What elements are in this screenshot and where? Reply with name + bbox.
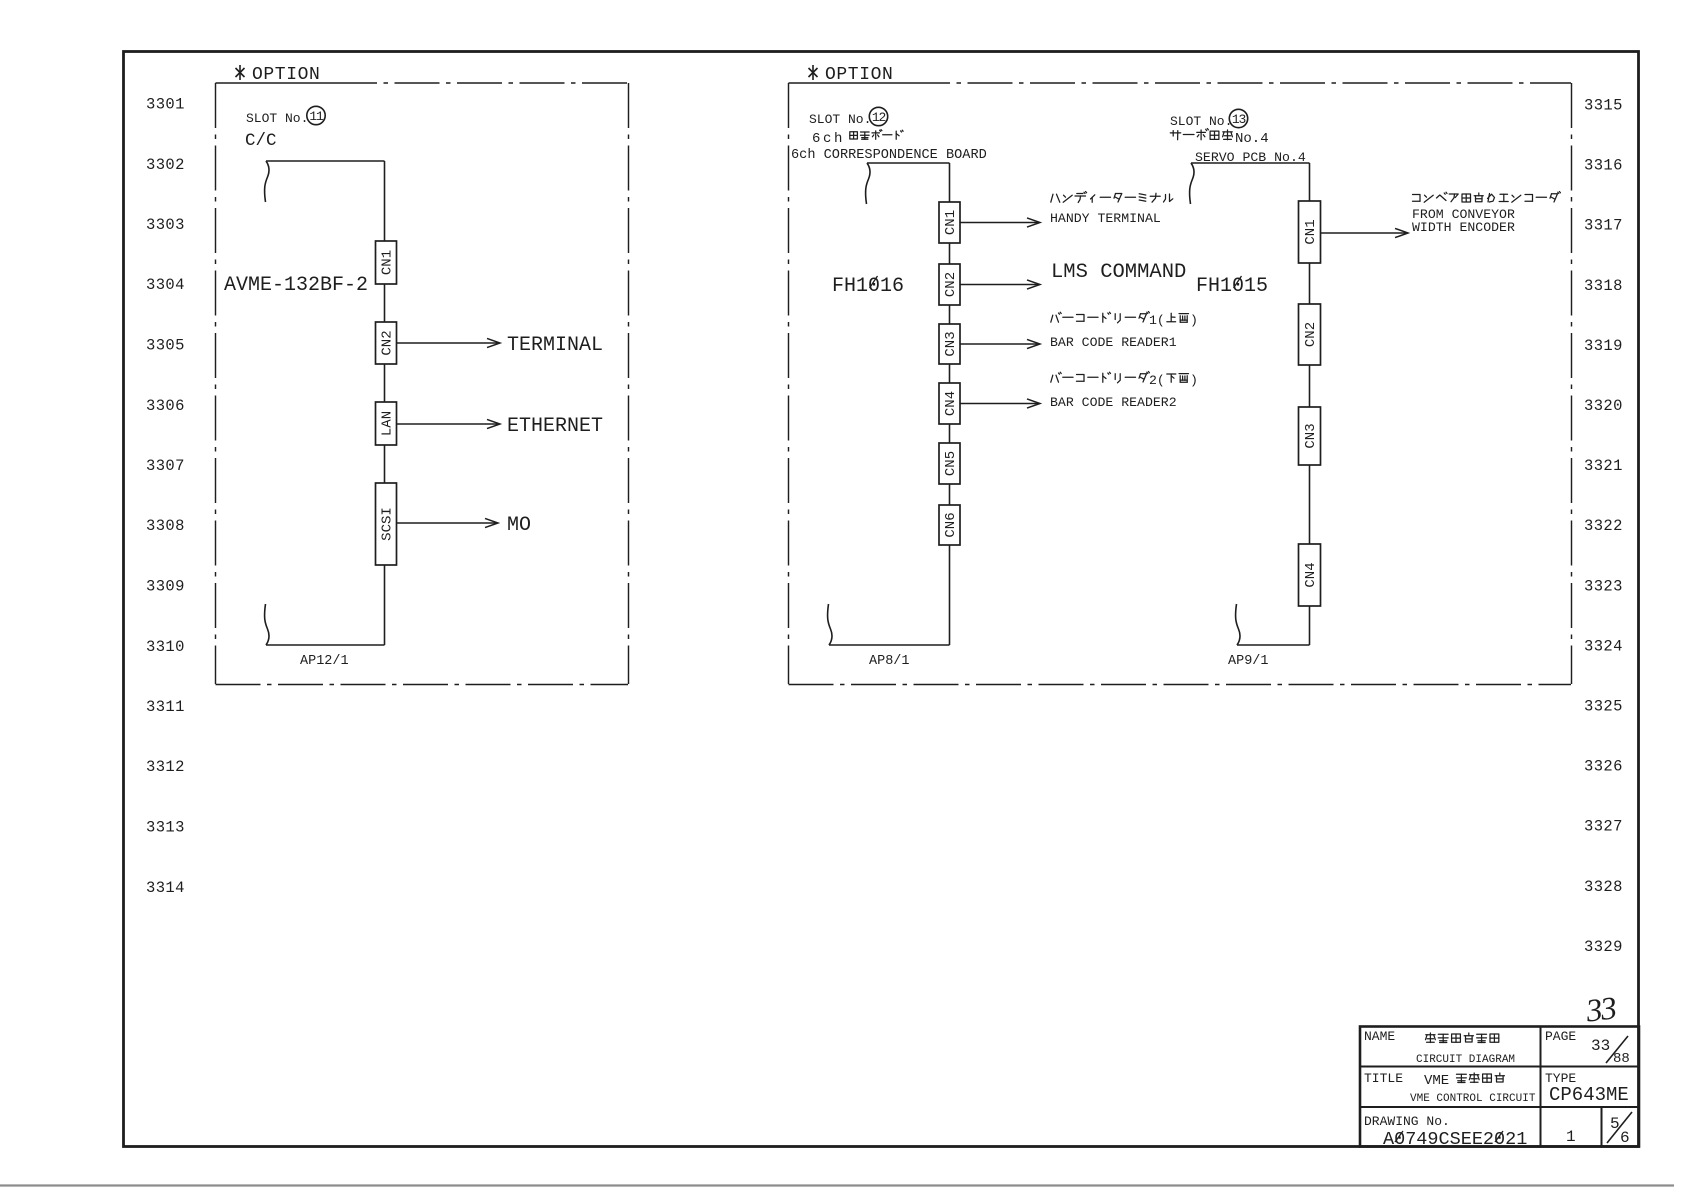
svg-text:CN2: CN2: [943, 272, 959, 297]
svg-text:OPTION: OPTION: [252, 65, 320, 85]
svg-text:3321: 3321: [1584, 457, 1623, 475]
option marker 1 (asterisk + OPTION): [236, 65, 245, 80]
svg-text:AVME-132BF-2: AVME-132BF-2: [224, 274, 368, 297]
svg-text:C/C: C/C: [245, 131, 277, 151]
wire: top edge horizontal (slot 13): [1191, 162, 1310, 164]
svg-text:3323: 3323: [1584, 577, 1623, 595]
svg-text:LMS COMMAND: LMS COMMAND: [1051, 261, 1186, 284]
left margin line numbers 3301-3314: [146, 96, 185, 897]
svg-text:BAR CODE READER2: BAR CODE READER2: [1050, 395, 1177, 410]
svg-text:CN3: CN3: [943, 331, 959, 356]
svg-text:3306: 3306: [146, 397, 185, 415]
svg-text:1: 1: [1566, 1128, 1576, 1146]
arrow CN1 to HANDY TERMINAL: [960, 222, 1038, 224]
svg-text:DRAWING No.: DRAWING No.: [1364, 1114, 1450, 1129]
svg-text:HANDY TERMINAL: HANDY TERMINAL: [1050, 211, 1161, 226]
svg-text:CN2: CN2: [380, 330, 396, 355]
svg-text:): ): [1190, 313, 1198, 328]
name denki kairo senzu (JP): [1426, 1034, 1435, 1036]
board edge squiggle bottom (slot 13): [1236, 604, 1240, 645]
svg-text:3328: 3328: [1584, 878, 1623, 896]
svg-text:FH1015: FH1015: [1196, 275, 1268, 298]
arrow CN3 to BAR CODE READER1: [960, 343, 1038, 345]
right margin line numbers 3315-3329: [1584, 97, 1623, 956]
svg-text:CN4: CN4: [1303, 562, 1319, 587]
svg-text:3315: 3315: [1584, 97, 1623, 115]
svg-text:3317: 3317: [1584, 217, 1623, 235]
connector CN1 (slot 13): [1299, 201, 1321, 263]
arrow CN4 to BAR CODE READER2: [960, 403, 1038, 405]
svg-text:3325: 3325: [1584, 698, 1623, 716]
svg-text:11: 11: [309, 109, 324, 124]
circled 11: [307, 106, 325, 124]
arrow CN2 to LMS COMMAND: [960, 284, 1038, 286]
svg-text:CP643ME: CP643ME: [1549, 1084, 1629, 1106]
svg-text:PAGE: PAGE: [1545, 1029, 1576, 1044]
svg-text:CN1: CN1: [1303, 219, 1319, 244]
wire: bottom edge horizontal (slot 11): [266, 644, 385, 646]
label conveyor width encoder (JP): [1413, 195, 1421, 202]
svg-text:1(: 1(: [1149, 313, 1165, 328]
connector CN3 (slot 12): [939, 324, 960, 364]
svg-text:CN5: CN5: [943, 451, 959, 476]
option box 2 border: [789, 83, 1572, 685]
svg-text:SLOT No.: SLOT No.: [809, 112, 871, 127]
svg-text:3324: 3324: [1584, 637, 1623, 655]
svg-text:CN2: CN2: [1303, 322, 1319, 347]
svg-text:3305: 3305: [146, 337, 185, 355]
svg-text:3303: 3303: [146, 216, 185, 234]
svg-text:BAR CODE READER1: BAR CODE READER1: [1050, 335, 1177, 350]
wire: bottom edge horizontal (slot 12): [829, 644, 950, 646]
svg-text:3329: 3329: [1584, 938, 1623, 956]
svg-text:2(: 2(: [1149, 373, 1165, 388]
svg-text:3326: 3326: [1584, 758, 1623, 776]
svg-text:AP9/1: AP9/1: [1228, 654, 1269, 669]
wire: board bus vertical (slot 11): [384, 161, 386, 645]
svg-text:12: 12: [872, 110, 886, 125]
svg-text:3301: 3301: [146, 96, 185, 114]
svg-text:3320: 3320: [1584, 397, 1623, 415]
connector CN2 (slot 13): [1299, 304, 1321, 365]
arrow CN1 to width encoder: [1321, 232, 1407, 234]
svg-text:CN4: CN4: [943, 391, 959, 416]
svg-text:3318: 3318: [1584, 277, 1623, 295]
svg-text:CIRCUIT DIAGRAM: CIRCUIT DIAGRAM: [1416, 1054, 1515, 1066]
svg-text:3312: 3312: [146, 758, 185, 776]
svg-text:SLOT No.: SLOT No.: [246, 111, 308, 126]
connector CN5 (slot 12): [939, 443, 960, 484]
svg-text:3314: 3314: [146, 879, 185, 897]
arrow LAN to ETHERNET: [397, 423, 499, 425]
svg-text:6: 6: [1620, 1129, 1630, 1147]
wire: top edge horizontal (slot 11): [266, 160, 385, 162]
svg-text:No.4: No.4: [1235, 131, 1269, 147]
board edge squiggle top (slot 11): [265, 161, 269, 202]
svg-text:TITLE: TITLE: [1364, 1071, 1403, 1086]
connector CN3 (slot 13): [1299, 407, 1321, 465]
svg-text:3319: 3319: [1584, 337, 1623, 355]
svg-text:WIDTH ENCODER: WIDTH ENCODER: [1412, 220, 1515, 235]
svg-text:FH1016: FH1016: [832, 275, 904, 298]
svg-text:MO: MO: [507, 514, 531, 537]
connector SCSI: [376, 483, 397, 565]
svg-text:33: 33: [1591, 1037, 1610, 1055]
svg-text:CN3: CN3: [1303, 423, 1319, 448]
wire: top edge horizontal (slot 12): [867, 162, 950, 164]
label bar code reader 1 (JP): [1051, 315, 1053, 322]
connector CN1 (slot 12): [939, 202, 960, 243]
connector CN1 (slot 11): [376, 241, 397, 284]
label handy terminal (JP): [1051, 194, 1053, 202]
circled 12: [869, 107, 887, 125]
wire: bottom edge horizontal (slot 13): [1237, 644, 1310, 646]
arrow SCSI to MO: [397, 522, 497, 524]
svg-text:SCSI: SCSI: [380, 507, 396, 541]
connector CN2 (slot 11): [376, 322, 397, 364]
label bar code reader 2 (JP): [1051, 375, 1053, 382]
svg-text:3311: 3311: [146, 698, 185, 716]
title block field labels: [1364, 1029, 1576, 1129]
svg-text:13: 13: [1232, 112, 1246, 127]
svg-text:3313: 3313: [146, 819, 185, 837]
board name servo kiban No.4 (JP): [1170, 132, 1180, 134]
svg-text:CN1: CN1: [943, 210, 959, 235]
connector CN2 (slot 12): [939, 264, 960, 305]
svg-text:3322: 3322: [1584, 517, 1623, 535]
svg-text:CN1: CN1: [380, 250, 396, 275]
svg-text:3327: 3327: [1584, 818, 1623, 836]
svg-text:3302: 3302: [146, 156, 185, 174]
svg-text:ETHERNET: ETHERNET: [507, 415, 603, 438]
svg-text:3307: 3307: [146, 457, 185, 475]
board edge squiggle top (slot 12): [866, 163, 870, 204]
svg-text:AP12/1: AP12/1: [300, 654, 349, 669]
svg-text:VME: VME: [1424, 1073, 1449, 1089]
connector LAN: [376, 402, 397, 445]
svg-text:SLOT No.: SLOT No.: [1170, 114, 1232, 129]
board edge squiggle top (slot 13): [1190, 163, 1194, 204]
wire: board bus vertical (slot 13): [1309, 163, 1311, 645]
svg-text:NAME: NAME: [1364, 1029, 1395, 1044]
option box 1 border: [216, 83, 629, 685]
svg-text:LAN: LAN: [380, 411, 396, 436]
circled 13: [1229, 109, 1247, 127]
connector CN6 (slot 12): [939, 505, 960, 545]
connector CN4 (slot 13): [1299, 544, 1321, 606]
svg-text:3316: 3316: [1584, 157, 1623, 175]
svg-text:): ): [1190, 373, 1198, 388]
title block grid: [1360, 1027, 1639, 1147]
wire: board bus vertical (slot 12): [949, 163, 951, 645]
svg-text:OPTION: OPTION: [825, 65, 893, 85]
svg-text:AP8/1: AP8/1: [869, 654, 910, 669]
arrow CN2 to TERMINAL: [397, 342, 499, 344]
svg-text:CN6: CN6: [943, 512, 959, 537]
scan edge line: [0, 1184, 1674, 1186]
svg-text:3308: 3308: [146, 517, 185, 535]
svg-text:3309: 3309: [146, 578, 185, 596]
board edge squiggle bottom (slot 12): [828, 604, 832, 645]
board edge squiggle bottom (slot 11): [265, 604, 269, 645]
svg-text:A0749CSEE2021: A0749CSEE2021: [1383, 1129, 1527, 1150]
svg-text:6ch: 6ch: [812, 131, 845, 147]
svg-text:6ch CORRESPONDENCE BOARD: 6ch CORRESPONDENCE BOARD: [791, 148, 987, 163]
svg-text:33: 33: [1583, 989, 1618, 1028]
slashed zeros on plotter-style labels: [870, 276, 1504, 1142]
svg-text:TERMINAL: TERMINAL: [507, 334, 603, 357]
connector CN4 (slot 12): [939, 383, 960, 424]
option marker 2 (asterisk + OPTION): [809, 65, 818, 80]
svg-text:3304: 3304: [146, 276, 185, 294]
svg-text:88: 88: [1613, 1051, 1630, 1067]
svg-text:3310: 3310: [146, 638, 185, 656]
svg-text:VME CONTROL CIRCUIT: VME CONTROL CIRCUIT: [1410, 1093, 1536, 1105]
